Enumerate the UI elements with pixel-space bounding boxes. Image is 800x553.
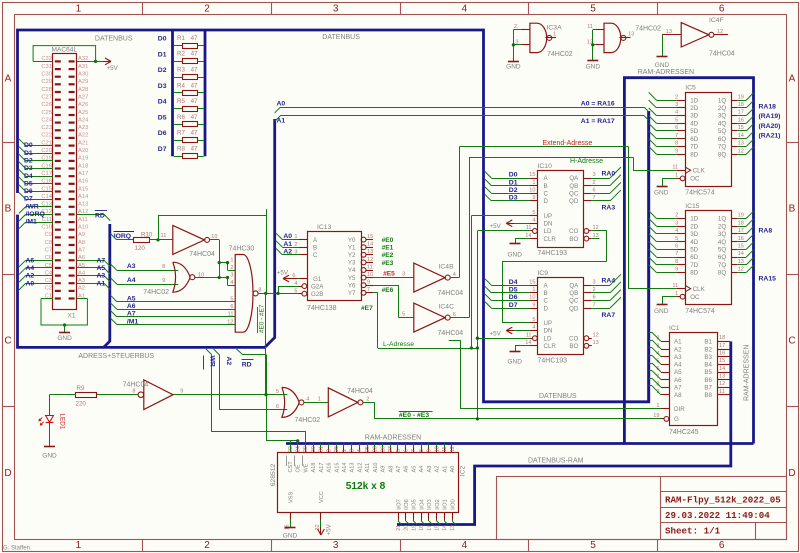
svg-text:QC: QC bbox=[569, 298, 579, 305]
junction R10 output bbox=[156, 238, 159, 241]
svg-text:12: 12 bbox=[719, 381, 725, 387]
svg-text:D3: D3 bbox=[158, 83, 167, 90]
svg-text:9: 9 bbox=[367, 280, 370, 286]
svg-text:11: 11 bbox=[587, 24, 593, 30]
svg-text:C25: C25 bbox=[41, 110, 52, 116]
svg-text:13: 13 bbox=[367, 249, 373, 255]
svg-text:R9: R9 bbox=[77, 385, 85, 392]
svg-text:74HC04: 74HC04 bbox=[438, 330, 464, 337]
svg-text:14: 14 bbox=[442, 525, 448, 531]
wire H-Adresse (IC4C out to IC5 CLK) bbox=[450, 157, 676, 317]
svg-text:2Q: 2Q bbox=[718, 105, 726, 112]
svg-text:74HC193: 74HC193 bbox=[538, 357, 568, 364]
svg-text:R10: R10 bbox=[141, 232, 153, 239]
svg-text:10: 10 bbox=[367, 272, 373, 278]
svg-text:D2: D2 bbox=[158, 67, 167, 74]
junction IC3B inputs bbox=[591, 43, 594, 46]
svg-text:I/O4: I/O4 bbox=[419, 499, 425, 510]
svg-text:A10: A10 bbox=[373, 463, 379, 473]
svg-text:+5V: +5V bbox=[107, 65, 119, 72]
svg-text:(RA19): (RA19) bbox=[759, 113, 781, 120]
svg-text:13: 13 bbox=[593, 340, 599, 346]
svg-text:3D: 3D bbox=[690, 231, 698, 238]
svg-text:A0 = RA16: A0 = RA16 bbox=[581, 100, 615, 107]
wire cascade IC10 CO to IC9 UP bbox=[502, 231, 607, 323]
wire 74HC30 output bbox=[258, 286, 299, 294]
svg-text:5: 5 bbox=[675, 236, 678, 242]
svg-text:18: 18 bbox=[719, 335, 725, 341]
svg-text:10: 10 bbox=[434, 446, 440, 452]
svg-text:(RA21): (RA21) bbox=[759, 133, 781, 140]
svg-text:3: 3 bbox=[593, 279, 596, 285]
svg-text:5: 5 bbox=[276, 389, 279, 395]
wires outputs IC9 to RAM-ADRESSEN bus bbox=[592, 274, 621, 308]
svg-text:15: 15 bbox=[434, 525, 440, 531]
svg-text:A7: A7 bbox=[674, 385, 682, 392]
svg-text:13: 13 bbox=[593, 233, 599, 239]
svg-text:A1: A1 bbox=[442, 466, 448, 473]
svg-text:5Q: 5Q bbox=[718, 128, 726, 135]
svg-text:6: 6 bbox=[675, 243, 678, 249]
svg-text:RA4: RA4 bbox=[602, 278, 616, 285]
svg-text:A20: A20 bbox=[78, 148, 88, 154]
svg-text:1Q: 1Q bbox=[718, 97, 726, 104]
svg-text:7: 7 bbox=[411, 449, 417, 452]
wires data inputs IC15 from bus bbox=[649, 211, 677, 273]
svg-text:IC15: IC15 bbox=[685, 203, 700, 210]
svg-text:R7: R7 bbox=[177, 130, 185, 137]
op IC9 74HC193 body bbox=[530, 270, 592, 364]
svg-text:1: 1 bbox=[318, 396, 321, 402]
svg-text:A0: A0 bbox=[26, 280, 35, 287]
svg-text:74HC02: 74HC02 bbox=[635, 26, 661, 33]
svg-text:RAM-Flpy_512k_2022_05: RAM-Flpy_512k_2022_05 bbox=[665, 495, 781, 506]
svg-text:G1: G1 bbox=[313, 276, 322, 283]
svg-text:D: D bbox=[544, 198, 549, 205]
svg-text:QA: QA bbox=[569, 282, 579, 289]
svg-text:VCC: VCC bbox=[319, 491, 325, 503]
svg-text:UP: UP bbox=[544, 320, 553, 327]
svg-text:CO: CO bbox=[569, 335, 578, 342]
bus IC1 B-side / DATENBUS-RAM bbox=[397, 341, 731, 524]
svg-text:5: 5 bbox=[402, 312, 405, 318]
svg-text:1: 1 bbox=[532, 287, 535, 293]
wire 74HC04 out to #E0-#E3 bbox=[363, 402, 375, 419]
svg-text:14: 14 bbox=[719, 366, 725, 372]
svg-text:LED1: LED1 bbox=[59, 414, 66, 430]
svg-text:A8: A8 bbox=[388, 466, 394, 473]
svg-text:A14: A14 bbox=[342, 463, 348, 473]
svg-text:QB: QB bbox=[569, 183, 578, 190]
svg-text:C8: C8 bbox=[45, 240, 52, 246]
svg-text:A16: A16 bbox=[78, 179, 88, 185]
+5V supply arrow IC13 G1 bbox=[277, 269, 299, 282]
svg-text:Extend-Adresse: Extend-Adresse bbox=[543, 140, 593, 147]
IC2 I/O pin names bbox=[396, 499, 456, 510]
net labels A6 A4 A2 A0 bbox=[26, 257, 35, 287]
svg-text:9: 9 bbox=[427, 449, 433, 452]
svg-text:2: 2 bbox=[230, 265, 233, 271]
IC2 I/O pin numbers bbox=[396, 525, 456, 531]
svg-text:74HC04: 74HC04 bbox=[709, 51, 735, 58]
svg-text:5: 5 bbox=[590, 540, 596, 551]
svg-text:#E6: #E6 bbox=[382, 287, 394, 294]
svg-text:3: 3 bbox=[350, 449, 356, 452]
svg-text:6: 6 bbox=[404, 449, 410, 452]
svg-text:9: 9 bbox=[675, 267, 678, 273]
svg-text:5: 5 bbox=[532, 317, 535, 323]
svg-text:9: 9 bbox=[162, 278, 165, 284]
ground symbol IC3B bbox=[592, 58, 594, 61]
pin numbers IC9 bbox=[525, 279, 598, 346]
svg-text:4: 4 bbox=[532, 218, 535, 224]
svg-text:A5: A5 bbox=[97, 265, 106, 272]
svg-text:3: 3 bbox=[294, 249, 297, 255]
svg-text:C: C bbox=[788, 336, 795, 347]
svg-text:R1: R1 bbox=[177, 35, 185, 42]
svg-text:I/O7: I/O7 bbox=[396, 499, 402, 510]
svg-text:D1: D1 bbox=[24, 150, 33, 157]
svg-text:D2: D2 bbox=[509, 187, 518, 194]
svg-text:74HC02: 74HC02 bbox=[295, 417, 321, 424]
svg-text:C7: C7 bbox=[45, 247, 52, 253]
svg-text:6Q: 6Q bbox=[718, 136, 726, 143]
wires outputs IC10 to RAM-ADRESSEN bus bbox=[592, 167, 621, 201]
svg-text:D0: D0 bbox=[24, 142, 33, 149]
connector pad names bbox=[41, 56, 89, 299]
svg-text:A0: A0 bbox=[450, 466, 456, 473]
net label RD (overline) bbox=[95, 211, 107, 220]
svg-text:IC4C: IC4C bbox=[439, 303, 455, 310]
svg-text:B8: B8 bbox=[704, 392, 712, 399]
junction G2A/G2B tie bbox=[276, 292, 279, 295]
svg-text:#E3: #E3 bbox=[382, 260, 394, 267]
IC2 I/O pin stubs bbox=[399, 512, 453, 519]
svg-text:A1: A1 bbox=[97, 280, 106, 287]
junction 74HC30 output bbox=[264, 292, 267, 295]
svg-text:7: 7 bbox=[367, 287, 370, 293]
svg-text:A9: A9 bbox=[78, 232, 85, 238]
svg-text:D2: D2 bbox=[24, 157, 33, 164]
svg-text:#E7: #E7 bbox=[361, 305, 373, 312]
svg-text:13: 13 bbox=[719, 373, 725, 379]
connector X1 MAC64L body bbox=[53, 54, 77, 310]
svg-text:Y7: Y7 bbox=[348, 290, 356, 297]
svg-text:29: 29 bbox=[303, 446, 309, 452]
net labels /WR /IORQ /M1 bbox=[26, 203, 45, 225]
svg-text:WE: WE bbox=[303, 463, 309, 472]
svg-text:21: 21 bbox=[396, 525, 402, 531]
op IC13 74HC138 decoder body bbox=[299, 224, 373, 312]
svg-text:C30: C30 bbox=[41, 72, 52, 78]
svg-text:A25: A25 bbox=[78, 110, 88, 116]
svg-text:(RA20): (RA20) bbox=[759, 123, 781, 130]
svg-text:A6: A6 bbox=[674, 377, 682, 384]
svg-text:5: 5 bbox=[590, 4, 596, 15]
svg-text:IC5: IC5 bbox=[685, 85, 696, 92]
svg-text:GND: GND bbox=[654, 190, 669, 197]
svg-text:8D: 8D bbox=[690, 270, 698, 277]
+5V supply arrow IC10 DN bbox=[490, 220, 530, 230]
svg-text:C2: C2 bbox=[45, 286, 52, 292]
IC2 VCC pin to +5V bbox=[315, 512, 332, 535]
pin numbers IC13 G1 G2A G2B bbox=[292, 273, 297, 294]
svg-text:A8: A8 bbox=[674, 392, 682, 399]
svg-text:4: 4 bbox=[230, 280, 233, 286]
svg-text:Y6: Y6 bbox=[348, 282, 356, 289]
svg-text:A24: A24 bbox=[78, 117, 89, 123]
svg-text:/M1: /M1 bbox=[127, 318, 139, 325]
svg-text:A6: A6 bbox=[404, 466, 410, 473]
net label IORQ (overline) at R10 bbox=[114, 232, 135, 241]
svg-text:L-Adresse: L-Adresse bbox=[383, 341, 414, 348]
svg-text:C27: C27 bbox=[41, 94, 52, 100]
wire IC4A output to 74HC30 inputs bbox=[210, 240, 236, 286]
svg-text:D3: D3 bbox=[24, 165, 33, 172]
svg-text:A27: A27 bbox=[78, 94, 88, 100]
svg-text:4: 4 bbox=[357, 449, 363, 452]
resistor R3 47 bbox=[174, 66, 204, 79]
svg-text:D4: D4 bbox=[158, 99, 167, 106]
svg-text:7D: 7D bbox=[690, 262, 698, 269]
svg-text:#E1: #E1 bbox=[382, 245, 394, 252]
svg-text:7D: 7D bbox=[690, 144, 698, 151]
svg-text:H-Adresse: H-Adresse bbox=[570, 158, 603, 165]
svg-text:A2: A2 bbox=[674, 346, 682, 353]
net labels D4-D7 bbox=[509, 279, 518, 309]
svg-text:2: 2 bbox=[294, 242, 297, 248]
svg-text:628512: 628512 bbox=[270, 463, 277, 486]
ground symbol IC10 CLR bbox=[508, 239, 530, 259]
svg-text:74HC04: 74HC04 bbox=[438, 290, 464, 297]
wire WR to IC2 WE bbox=[206, 349, 306, 453]
svg-text:+5V: +5V bbox=[326, 523, 333, 535]
svg-text:D7: D7 bbox=[24, 196, 33, 203]
svg-text:74HC04: 74HC04 bbox=[189, 251, 215, 258]
svg-text:8: 8 bbox=[258, 288, 261, 294]
svg-text:12: 12 bbox=[738, 148, 744, 154]
svg-text:A16: A16 bbox=[327, 463, 333, 473]
svg-text:4: 4 bbox=[462, 540, 468, 551]
svg-text:BO: BO bbox=[569, 236, 578, 243]
wire R9 to LED bbox=[50, 395, 76, 416]
svg-text:1D: 1D bbox=[690, 216, 698, 223]
wire A3 to 74HC02 pin8 bbox=[110, 264, 178, 271]
svg-text:11: 11 bbox=[719, 389, 725, 395]
svg-text:74HC138: 74HC138 bbox=[307, 305, 337, 312]
resistor R5 47 bbox=[174, 98, 204, 111]
svg-text:+5V: +5V bbox=[277, 269, 289, 276]
svg-text:9: 9 bbox=[180, 389, 183, 395]
svg-text:A0: A0 bbox=[277, 100, 286, 107]
svg-text:C31: C31 bbox=[41, 64, 52, 70]
svg-text:D6: D6 bbox=[158, 130, 167, 137]
svg-text:A17: A17 bbox=[319, 463, 325, 473]
svg-text:6: 6 bbox=[292, 273, 295, 279]
svg-text:A2: A2 bbox=[435, 466, 441, 473]
svg-text:A5: A5 bbox=[127, 295, 136, 302]
svg-text:I/O5: I/O5 bbox=[412, 499, 418, 510]
svg-text:74HC02: 74HC02 bbox=[143, 289, 169, 296]
svg-text:I/O3: I/O3 bbox=[427, 499, 433, 510]
svg-text:4: 4 bbox=[294, 281, 297, 287]
wire inverter out to R9 bbox=[97, 394, 139, 396]
svg-text:12: 12 bbox=[717, 29, 723, 35]
svg-text:9: 9 bbox=[675, 148, 678, 154]
op IC1 74HC245 body bbox=[661, 325, 730, 436]
svg-text:D1: D1 bbox=[158, 51, 167, 58]
svg-text:3Q: 3Q bbox=[718, 231, 726, 238]
svg-text:11: 11 bbox=[367, 264, 373, 270]
svg-text:QB: QB bbox=[569, 290, 578, 297]
svg-text:47: 47 bbox=[191, 82, 198, 89]
svg-text:6D: 6D bbox=[690, 136, 698, 143]
wire bus to R10 bbox=[110, 234, 133, 240]
svg-text:+5V: +5V bbox=[490, 330, 502, 337]
svg-text:C: C bbox=[4, 336, 11, 347]
wire 74HC30 output down to RD junction bbox=[265, 293, 267, 394]
pin numbers IC15 bbox=[672, 213, 744, 297]
svg-text:2: 2 bbox=[366, 396, 369, 402]
svg-text:20: 20 bbox=[404, 525, 410, 531]
svg-text:I/O2: I/O2 bbox=[435, 499, 441, 510]
inverter IC4A 74HC04 (IORQ) bbox=[161, 225, 218, 257]
pin numbers IC5 bbox=[672, 94, 744, 178]
svg-text:17: 17 bbox=[738, 110, 744, 116]
svg-text:1: 1 bbox=[76, 4, 82, 15]
svg-text:B: B bbox=[789, 204, 796, 215]
svg-text:12: 12 bbox=[367, 257, 373, 263]
svg-text:Y5: Y5 bbox=[348, 275, 356, 282]
svg-text:B: B bbox=[5, 204, 12, 215]
svg-text:QD: QD bbox=[569, 198, 579, 205]
svg-text:VSS: VSS bbox=[288, 492, 294, 503]
svg-text:1: 1 bbox=[553, 32, 556, 38]
svg-text:#E0: #E0 bbox=[382, 237, 394, 244]
svg-text:3: 3 bbox=[230, 272, 233, 278]
IC2 top pin numbers bbox=[288, 446, 456, 452]
wire UP-rail drop to L-Adresse bbox=[471, 216, 473, 348]
svg-text:A6: A6 bbox=[26, 257, 35, 264]
svg-text:11: 11 bbox=[526, 332, 532, 338]
wire IORQ rail vertical bbox=[266, 209, 268, 293]
nand gate IC3A 74HC02 bbox=[514, 23, 573, 58]
resistor R6 47 bbox=[174, 114, 204, 127]
svg-text:2: 2 bbox=[675, 94, 678, 100]
bus IC1 A-side (from DATENBUS) bbox=[647, 111, 650, 402]
svg-text:10: 10 bbox=[529, 295, 535, 301]
svg-text:/M1: /M1 bbox=[26, 219, 38, 226]
nand gate IC3B 74HC02 (pins 11,12,13) bbox=[587, 23, 661, 52]
svg-text:A18: A18 bbox=[311, 463, 317, 473]
svg-text:C23: C23 bbox=[41, 125, 52, 131]
svg-text:A7: A7 bbox=[78, 247, 85, 253]
svg-text:D6: D6 bbox=[24, 188, 33, 195]
svg-text:B1: B1 bbox=[704, 339, 712, 346]
svg-text:CLR: CLR bbox=[544, 343, 557, 350]
svg-text:A1 = RA17: A1 = RA17 bbox=[581, 118, 615, 125]
svg-text:A13: A13 bbox=[78, 202, 88, 208]
resistor R9 220 bbox=[76, 385, 97, 408]
svg-text:OC: OC bbox=[690, 176, 700, 183]
net label #E0 - #E7 (rotated, overline) bbox=[258, 304, 266, 333]
svg-text:8: 8 bbox=[419, 449, 425, 452]
svg-text:Y3: Y3 bbox=[348, 260, 356, 267]
svg-text:RD: RD bbox=[95, 213, 105, 220]
svg-text:C: C bbox=[544, 298, 549, 305]
IC2 VSS VCC names bbox=[288, 491, 325, 503]
svg-text:6D: 6D bbox=[690, 254, 698, 261]
svg-text:D5: D5 bbox=[509, 286, 518, 293]
svg-text:WR: WR bbox=[209, 356, 216, 367]
svg-text:C24: C24 bbox=[41, 117, 52, 123]
svg-text:A4: A4 bbox=[26, 265, 35, 272]
svg-text:RA15: RA15 bbox=[759, 276, 777, 283]
nand gate IC? 74HC30 bbox=[229, 246, 262, 333]
inverter IC4D 74HC04 (LED driver, mirrored) bbox=[123, 380, 184, 410]
bus ADRESS+STEUERBUS bbox=[18, 119, 275, 347]
svg-text:Y0: Y0 bbox=[348, 237, 356, 244]
svg-text:R5: R5 bbox=[177, 98, 185, 105]
svg-text:11: 11 bbox=[672, 165, 678, 171]
svg-text:/WR: /WR bbox=[26, 203, 39, 210]
svg-text:7Q: 7Q bbox=[718, 262, 726, 269]
svg-text:47: 47 bbox=[191, 98, 198, 105]
wire #E0 - #E3 to IC1 G bbox=[375, 418, 661, 420]
svg-text:X1: X1 bbox=[67, 313, 75, 320]
svg-text:C29: C29 bbox=[41, 79, 52, 85]
svg-text:C22: C22 bbox=[41, 133, 52, 139]
wire IC10 BO stub bbox=[592, 238, 600, 240]
svg-text:1: 1 bbox=[230, 257, 233, 263]
svg-text:A6: A6 bbox=[127, 303, 136, 310]
svg-text:A3: A3 bbox=[674, 354, 682, 361]
svg-text:11: 11 bbox=[442, 447, 448, 452]
svg-text:47: 47 bbox=[191, 145, 198, 152]
wires bus to IC13 A B C bbox=[276, 233, 299, 255]
svg-text:74HC02: 74HC02 bbox=[547, 51, 573, 58]
svg-text:DN: DN bbox=[544, 328, 553, 335]
svg-text:2: 2 bbox=[326, 449, 332, 452]
svg-text:GND: GND bbox=[57, 335, 72, 342]
bus RAM-ADRESSEN rectangle bbox=[286, 78, 754, 444]
svg-text:9: 9 bbox=[532, 195, 535, 201]
net labels A0 A1 A2 (decoder inputs) bbox=[283, 233, 292, 255]
svg-text:6: 6 bbox=[593, 188, 596, 194]
inverter IC4F 74HC04 bbox=[662, 17, 735, 58]
wire Y5 to IC4B bbox=[373, 277, 414, 279]
wire Y7 down to L-Adresse bbox=[373, 293, 378, 349]
+5V supply arrow IC9 DN bbox=[490, 327, 530, 337]
svg-text:15: 15 bbox=[529, 172, 535, 178]
svg-text:DATENBUS: DATENBUS bbox=[95, 36, 133, 43]
wires data inputs IC5 from bus bbox=[649, 92, 677, 154]
svg-text:10: 10 bbox=[529, 188, 535, 194]
svg-text:A18: A18 bbox=[78, 163, 88, 169]
svg-text:GND: GND bbox=[283, 533, 298, 540]
svg-text:I/O1: I/O1 bbox=[443, 499, 449, 510]
svg-text:5D: 5D bbox=[690, 128, 698, 135]
svg-text:1: 1 bbox=[294, 234, 297, 240]
resistor R4 47 bbox=[174, 82, 204, 95]
net label #E0 - #E3 (overline) bbox=[399, 412, 433, 420]
svg-text:8D: 8D bbox=[690, 151, 698, 158]
svg-text:A4: A4 bbox=[419, 466, 425, 473]
wires A5 A6 A7 /M1 to 74HC30 bbox=[110, 295, 235, 324]
svg-text:4: 4 bbox=[306, 396, 309, 402]
svg-text:DATENBUS-RAM: DATENBUS-RAM bbox=[528, 457, 584, 464]
svg-text:GND: GND bbox=[508, 251, 523, 258]
